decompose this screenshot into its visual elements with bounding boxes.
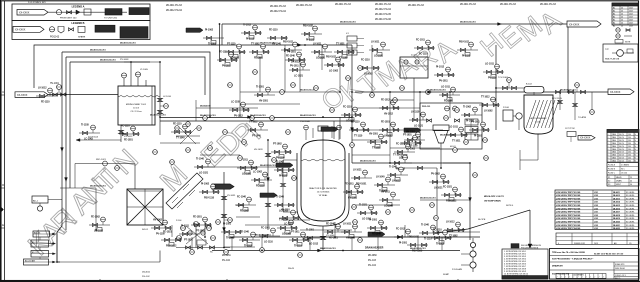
svg-text:LV-1021: LV-1021: [434, 188, 443, 190]
svg-text:2B-4012 PG-64: 2B-4012 PG-64: [166, 10, 183, 12]
valve group VG87: [479, 97, 500, 113]
svg-text:2B40: 2B40: [612, 146, 616, 148]
svg-text:PSV-1012: PSV-1012: [166, 246, 177, 248]
svg-text:LV-1011: LV-1011: [371, 42, 380, 44]
svg-text:LG-1011: LG-1011: [449, 127, 459, 129]
svg-text:1: 1: [608, 149, 609, 151]
svg-text:PKG-101: PKG-101: [422, 106, 431, 108]
border zone ticks: [0, 90, 458, 281]
svg-text:TI-1051: TI-1051: [208, 44, 217, 46]
svg-text:FC-1110: FC-1110: [121, 126, 130, 128]
legend box 1: [12, 4, 150, 21]
valve group VG78: [407, 237, 428, 253]
svg-text:OW SUMP DRAIN: OW SUMP DRAIN: [484, 200, 501, 203]
svg-text:2B-4011-50-CS1: 2B-4011-50-CS1: [100, 59, 116, 62]
svg-text:HV-1001: HV-1001: [50, 83, 60, 85]
svg-text:2B-4011 PG-63: 2B-4011 PG-63: [270, 6, 287, 8]
svg-text:TI-1040: TI-1040: [241, 231, 250, 234]
svg-text:2B-4011: 2B-4011: [613, 191, 620, 194]
svg-text:FC-1051: FC-1051: [261, 228, 271, 230]
svg-text:2B-4011 PG-63: 2B-4011 PG-63: [166, 5, 183, 7]
pipe risers mid right: [240, 45, 450, 163]
pipe main loop outer: [34, 45, 352, 163]
svg-text:FE-1062: FE-1062: [240, 211, 250, 213]
svg-text:PV-1051: PV-1051: [287, 52, 297, 54]
valve group VG6: [369, 42, 390, 58]
svg-text:2B-4011 PG-63: 2B-4011 PG-63: [375, 4, 392, 6]
valve group VG24: [239, 231, 260, 248]
valve group VG20: [304, 230, 325, 246]
svg-text:LOW LEVEL TRIP P103 SIS: LOW LEVEL TRIP P103 SIS: [556, 212, 581, 214]
svg-text:XX-XXXX: XX-XXXX: [17, 94, 28, 97]
svg-text:MIN SLOPE 1:100 TO: MIN SLOPE 1:100 TO: [484, 196, 504, 198]
svg-text:1: 1: [608, 155, 609, 157]
revision strip: [556, 274, 606, 279]
svg-text:E-102: E-102: [526, 84, 533, 86]
svg-text:PV-1062: PV-1062: [431, 174, 441, 176]
svg-text:50: 50: [630, 184, 632, 186]
svg-text:FE-1110: FE-1110: [41, 102, 50, 104]
svg-text:2B-4011 PG-63: 2B-4011 PG-63: [460, 4, 477, 6]
svg-text:SUMP: SUMP: [443, 274, 450, 276]
svg-text:CS / 2.5 bar: CS / 2.5 bar: [130, 110, 141, 113]
svg-text:FC-1110: FC-1110: [419, 54, 428, 56]
svg-text:XX-XXXX: XX-XXXX: [569, 23, 580, 26]
svg-text:TT-1051: TT-1051: [372, 148, 381, 150]
svg-text:150: 150: [628, 134, 631, 136]
svg-text:PT-1012: PT-1012: [196, 231, 205, 233]
svg-text:LG-1021: LG-1021: [199, 173, 209, 175]
svg-text:HV-1011: HV-1011: [381, 192, 391, 194]
svg-text:PT-1105: PT-1105: [409, 146, 418, 148]
dark flag markers: [186, 28, 421, 236]
valve group VG17: [351, 170, 372, 186]
svg-text:I-102: I-102: [594, 195, 598, 197]
legend box 2: [12, 21, 150, 40]
svg-text:PT-1011: PT-1011: [291, 232, 300, 234]
valve group VG85: [235, 196, 256, 213]
svg-text:PROCESS DIVISION: PROCESS DIVISION: [521, 248, 539, 250]
svg-text:FC-1051: FC-1051: [444, 101, 454, 103]
table line list right: [607, 130, 639, 187]
svg-text:2B-4012 PG-64: 2B-4012 PG-64: [270, 11, 287, 13]
svg-text:A1: A1: [613, 25, 615, 28]
svg-text:VENT SCRUBBER: VENT SCRUBBER: [530, 118, 548, 120]
svg-text:2B-4013: 2B-4013: [613, 197, 620, 200]
svg-text:2B-4015: 2B-4015: [613, 204, 620, 207]
flow arrows: [61, 23, 502, 253]
svg-text:2B-4011-50-CS1: 2B-4011-50-CS1: [420, 197, 436, 200]
valve group VG21: [324, 223, 345, 240]
logo mark above notes: [511, 244, 542, 250]
valve group VG12: [79, 125, 100, 141]
screw conveyor: [166, 173, 203, 209]
svg-text:D-101: D-101: [411, 55, 418, 57]
svg-text:2B-4060: 2B-4060: [368, 255, 377, 257]
svg-text:D: D: [2, 183, 4, 187]
svg-text:TT-1062: TT-1062: [251, 44, 260, 46]
svg-text:SD LEVEL: SD LEVEL: [626, 195, 635, 197]
valve station feed: [50, 83, 66, 96]
svg-text:FE-1051: FE-1051: [193, 217, 203, 219]
svg-text:P-104: P-104: [176, 220, 182, 222]
svg-text:2B40: 2B40: [612, 140, 616, 142]
pipe horizontal runs mid: [160, 92, 470, 225]
svg-text:TO UNIT 200: TO UNIT 200: [104, 18, 118, 20]
continuation reference labels bottom: [142, 255, 377, 278]
valve group VG70: [274, 162, 295, 178]
svg-text:XX-XXXX: XX-XXXX: [610, 91, 621, 94]
scrubber vessel E-101 hatched: [524, 90, 559, 150]
svg-text:150: 150: [628, 143, 631, 145]
svg-text:LV-1021: LV-1021: [353, 170, 362, 172]
svg-text:1: 1: [608, 143, 609, 145]
svg-text:LOW LEVEL TRIP P101 SIS: LOW LEVEL TRIP P101 SIS: [556, 218, 581, 220]
svg-text:I-101: I-101: [594, 222, 598, 224]
svg-text:SCALE NTS: SCALE NTS: [615, 263, 625, 266]
svg-text:0: 0: [558, 243, 559, 245]
valve group VG57: [249, 44, 270, 60]
svg-text:LG-1051: LG-1051: [242, 174, 252, 176]
svg-text:TCV-1062: TCV-1062: [498, 77, 509, 79]
svg-text:2B-4011-50-CS1: 2B-4011-50-CS1: [410, 247, 426, 250]
valve group VG62: [359, 60, 380, 76]
svg-text:2B40: 2B40: [612, 149, 616, 151]
svg-text:LG-1011: LG-1011: [485, 64, 495, 66]
svg-text:SEAL PLAN 53B: SEAL PLAN 53B: [605, 58, 620, 61]
valve group VG75: [277, 220, 298, 236]
svg-text:2B40: 2B40: [612, 137, 616, 139]
svg-text:2B-4014: 2B-4014: [613, 201, 620, 204]
svg-text:PV-1105: PV-1105: [156, 234, 165, 236]
reactor feed downcomers: [196, 100, 340, 139]
svg-text:2B-4012: 2B-4012: [613, 194, 620, 197]
svg-text:2B-4011-50-CS1: 2B-4011-50-CS1: [460, 21, 476, 24]
svg-text:LOW LEVEL TRIP P102 SIS: LOW LEVEL TRIP P102 SIS: [556, 195, 581, 197]
svg-text:FE-1040: FE-1040: [326, 223, 336, 226]
valve group VG25: [259, 228, 280, 244]
additive box A3: [31, 240, 56, 247]
table equipment list lower: [556, 233, 639, 245]
svg-text:XX-XXXX: XX-XXXX: [15, 29, 26, 32]
svg-text:SD LEVEL: SD LEVEL: [626, 215, 635, 217]
valve group VG43: [89, 217, 110, 233]
watermark text HEMA: [475, 5, 567, 63]
svg-text:TT-1012: TT-1012: [249, 122, 258, 124]
svg-text:2B-4020: 2B-4020: [613, 221, 620, 224]
valve group VG13: [194, 158, 215, 175]
svg-text:TT-1110: TT-1110: [279, 220, 288, 222]
svg-text:LV-1062: LV-1062: [484, 111, 493, 113]
svg-text:2B-4011-50-CS1: 2B-4011-50-CS1: [340, 21, 356, 24]
svg-text:TI-1110: TI-1110: [294, 246, 302, 248]
svg-text:PSV-1011: PSV-1011: [459, 42, 470, 44]
valve group VG81: [279, 210, 300, 226]
svg-text:LEGEND B: LEGEND B: [72, 22, 85, 25]
svg-text:15 m3 SS316: 15 m3 SS316: [317, 192, 330, 194]
svg-text:25: 25: [621, 14, 623, 16]
svg-text:CS 150: CS 150: [621, 173, 627, 175]
valve group VG55: [301, 26, 322, 42]
svg-text:FC-1110: FC-1110: [396, 144, 405, 146]
pipe bottom verticals: [172, 218, 442, 250]
svg-text:HV-1040: HV-1040: [346, 237, 356, 240]
pipe package outlet: [395, 166, 480, 232]
svg-text:LC-1021: LC-1021: [316, 58, 326, 60]
pipe drum outlet down: [390, 92, 414, 120]
svg-text:PG-103: PG-103: [368, 260, 377, 262]
svg-text:FE-1110: FE-1110: [269, 30, 278, 32]
svg-text:I-103: I-103: [594, 228, 598, 230]
svg-text:PV-1110: PV-1110: [488, 78, 497, 80]
vent header valves: [552, 83, 586, 100]
svg-text:FE-1040: FE-1040: [372, 233, 382, 236]
svg-text:LV-1012: LV-1012: [384, 136, 393, 138]
svg-text:FE-1051: FE-1051: [254, 58, 264, 60]
svg-text:25: 25: [621, 20, 623, 22]
svg-text:FC-1040: FC-1040: [237, 196, 247, 199]
svg-text:HV-1051: HV-1051: [259, 101, 269, 103]
svg-text:No 087 12 07 Bb 05 100 1 07 5: No 087 12 07 Bb 05 100 1 07 5 00: [594, 254, 623, 256]
notes list box: [502, 249, 548, 279]
svg-text:TI-1062: TI-1062: [276, 162, 285, 164]
svg-text:SD LEVEL: SD LEVEL: [626, 212, 635, 214]
svg-text:TI-1012: TI-1012: [244, 246, 253, 248]
table valve schedule top right: [612, 3, 638, 28]
svg-text:TI-1040: TI-1040: [196, 158, 205, 161]
valve group VG80: [151, 220, 172, 236]
svg-text:I-101: I-101: [594, 212, 598, 214]
svg-text:LG-1051: LG-1051: [362, 219, 372, 221]
valve column right of tank: [158, 62, 172, 135]
svg-text:2B40: 2B40: [612, 152, 616, 154]
svg-text:PI-1062: PI-1062: [201, 184, 210, 186]
svg-text:2B-4011-50-CS1: 2B-4011-50-CS1: [320, 247, 336, 250]
reactor bottom outlet: [320, 226, 335, 250]
svg-text:2B-4011-50-CS1: 2B-4011-50-CS1: [430, 89, 446, 92]
svg-text:LOW LEVEL TRIP P101 SIS: LOW LEVEL TRIP P101 SIS: [556, 205, 581, 207]
svg-text:FE-1110: FE-1110: [219, 52, 228, 54]
valve group VG23: [179, 226, 200, 242]
svg-text:TT-1051: TT-1051: [336, 44, 345, 46]
svg-text:2B40: 2B40: [612, 158, 616, 160]
svg-text:HV-1062: HV-1062: [153, 220, 163, 222]
pipe top header to flare: [222, 24, 568, 45]
svg-text:FE-1012: FE-1012: [381, 100, 391, 102]
valve group VG58: [414, 40, 435, 56]
manifold knot mid left: [175, 122, 202, 144]
svg-text:PI-1011: PI-1011: [181, 226, 190, 228]
svg-text:TT-1110: TT-1110: [354, 136, 363, 138]
valve group VG16: [343, 184, 364, 200]
svg-text:I-103: I-103: [594, 208, 598, 210]
stream flag vapor outlet: [608, 89, 634, 95]
svg-text:NOTE: NOTE: [625, 42, 631, 44]
valve group VG9: [483, 64, 504, 80]
svg-text:FLUID B: FLUID B: [608, 169, 616, 171]
svg-text:AD-203: AD-203: [32, 251, 38, 254]
svg-text:2B-4011-50-CS1: 2B-4011-50-CS1: [90, 185, 106, 188]
additive box A4: [31, 251, 56, 258]
svg-text:PI-1051: PI-1051: [399, 243, 408, 245]
scrubber inlet piping: [496, 77, 524, 90]
svg-text:AD-202: AD-202: [32, 241, 38, 244]
svg-text:PV-1011: PV-1011: [222, 66, 231, 68]
svg-text:2B-4018: 2B-4018: [613, 214, 620, 217]
svg-text:PI-1051: PI-1051: [474, 136, 483, 138]
svg-text:AD-201: AD-201: [34, 232, 40, 235]
svg-text:LOW LEVEL TRIP P102 SIS: LOW LEVEL TRIP P102 SIS: [556, 208, 581, 210]
svg-text:XV-1012: XV-1012: [124, 136, 133, 138]
svg-text:HV-1051: HV-1051: [406, 132, 416, 134]
valve group VG83: [379, 192, 400, 208]
svg-text:DRAIN HEADER: DRAIN HEADER: [365, 247, 384, 250]
svg-text:TT-1040: TT-1040: [176, 137, 185, 140]
svg-text:2B-43: 2B-43: [288, 268, 295, 270]
svg-text:2B-4011 PG-63: 2B-4011 PG-63: [540, 4, 557, 6]
svg-text:40: 40: [630, 181, 632, 183]
svg-text:FE-1021: FE-1021: [329, 238, 339, 240]
svg-text:PSV-1011: PSV-1011: [326, 57, 337, 59]
svg-text:150: 150: [628, 155, 631, 157]
svg-text:PSV-1012: PSV-1012: [446, 201, 457, 203]
svg-text:PT-1110: PT-1110: [227, 44, 236, 46]
svg-text:25: 25: [621, 26, 623, 28]
svg-text:PSV-1051: PSV-1051: [356, 184, 367, 186]
svg-text:TI-1021: TI-1021: [359, 205, 368, 207]
svg-text:1: 1: [608, 134, 609, 136]
svg-text:LG-1062: LG-1062: [282, 234, 292, 236]
valve group VG22: [161, 232, 182, 248]
vent line instruments: [558, 92, 595, 120]
svg-text:2B-4011-50-CS1: 2B-4011-50-CS1: [90, 49, 106, 52]
pipe spec labels: [90, 21, 576, 250]
svg-text:X1: X1: [608, 177, 610, 179]
svg-text:PG62-63: PG62-63: [50, 37, 60, 39]
pipe funnel outlet: [443, 162, 470, 164]
svg-text:LV-1062: LV-1062: [364, 74, 373, 76]
valve group VG86: [469, 122, 490, 138]
svg-text:A1: A1: [613, 7, 615, 10]
svg-text:2B-4016: 2B-4016: [613, 207, 620, 210]
valve group VG64: [439, 87, 460, 103]
svg-text:VALVE: VALVE: [616, 176, 622, 179]
svg-text:LOW LEVEL TRIP P103 SIS: LOW LEVEL TRIP P103 SIS: [556, 198, 581, 200]
svg-text:LV-1040: LV-1040: [376, 176, 385, 179]
svg-text:A1: A1: [613, 10, 615, 13]
svg-text:HV-1012: HV-1012: [384, 114, 394, 116]
svg-text:2B-4012 PG-64: 2B-4012 PG-64: [375, 9, 392, 11]
pipe tank transfer pair: [160, 118, 352, 122]
valve group VG71: [387, 166, 408, 183]
svg-text:I-102: I-102: [594, 215, 598, 217]
svg-text:1: 1: [608, 137, 609, 139]
watermark text KARIANTIN: [22, 144, 144, 262]
svg-text:2B-4022-80: 2B-4022-80: [200, 105, 211, 108]
svg-text:2B40: 2B40: [612, 134, 616, 136]
funnel hopper F-101: [427, 119, 460, 168]
svg-text:TI-1012: TI-1012: [243, 25, 252, 27]
svg-text:PT-1051: PT-1051: [403, 135, 412, 137]
svg-text:150: 150: [628, 152, 631, 154]
valve group VG82: [357, 205, 378, 221]
instrument bubbles scattered: [153, 66, 489, 258]
svg-text:LEGEND A: LEGEND A: [72, 5, 85, 8]
reactor jacket connections: [281, 160, 297, 212]
svg-text:C: C: [2, 90, 4, 94]
svg-text:LV-1011: LV-1011: [343, 224, 352, 226]
pipe mid horizontal runs: [60, 164, 352, 231]
tank outlet valve group: [76, 125, 133, 142]
svg-text:SD LEVEL: SD LEVEL: [626, 205, 635, 207]
watermark text MEDPI: [154, 117, 267, 198]
svg-text:2B-4017: 2B-4017: [613, 211, 620, 214]
valve group VG34: [229, 102, 250, 118]
valve group VG88: [447, 127, 468, 143]
svg-text:HV-1040: HV-1040: [272, 43, 282, 46]
svg-text:2B-4051: 2B-4051: [222, 255, 231, 257]
valve group VG19: [391, 154, 412, 171]
svg-text:PG-102: PG-102: [142, 276, 150, 278]
valve group VG5: [281, 42, 302, 58]
svg-text:A1: A1: [613, 19, 615, 22]
scrubber bottoms pump: [503, 107, 538, 130]
tank T-101: [118, 86, 160, 125]
watermark text OKTMARA: [316, 34, 462, 117]
svg-text:I-103: I-103: [594, 218, 598, 220]
svg-text:TT-1012: TT-1012: [481, 97, 490, 99]
valve group VG7: [434, 67, 455, 83]
svg-text:LV-1012: LV-1012: [291, 62, 300, 64]
svg-text:TYP: TYP: [605, 49, 610, 51]
svg-text:100 SERIES: 100 SERIES: [573, 274, 584, 276]
valve manifold knot: [176, 220, 230, 254]
svg-text:FC-1021: FC-1021: [443, 187, 453, 189]
svg-text:B-101: B-101: [142, 229, 149, 231]
detail box pump seal: [603, 44, 638, 62]
svg-text:25: 25: [630, 177, 632, 179]
svg-text:2B-4011-50-CS1: 2B-4011-50-CS1: [560, 89, 576, 92]
svg-text:PT-1040: PT-1040: [252, 135, 261, 138]
svg-text:FROM UNIT 100: FROM UNIT 100: [60, 18, 77, 20]
valve group VG4: [241, 25, 262, 41]
svg-text:DWG 2B-001: DWG 2B-001: [615, 268, 625, 270]
continuation reference labels top: [166, 4, 557, 21]
svg-text:150: 150: [628, 158, 631, 160]
stream flag feed left: [15, 92, 118, 98]
svg-text:FC-1110: FC-1110: [361, 60, 370, 62]
svg-text:LC-1021: LC-1021: [294, 76, 304, 78]
bin hopper B-101: [127, 189, 163, 231]
valve group VG28: [419, 224, 440, 241]
svg-text:PI-1021: PI-1021: [462, 56, 471, 58]
svg-text:ISSUED FOR: ISSUED FOR: [574, 243, 586, 245]
svg-text:LC-1021: LC-1021: [374, 56, 384, 58]
svg-text:1: 1: [608, 152, 609, 154]
valve group VG1: [36, 88, 57, 104]
svg-text:FE-1011: FE-1011: [345, 184, 354, 186]
svg-text:150: 150: [628, 149, 631, 151]
svg-text:150: 150: [628, 137, 631, 139]
additive box A1: [32, 196, 62, 211]
svg-text:LC-1062: LC-1062: [253, 172, 263, 174]
small box stack top band: [346, 33, 364, 55]
svg-text:V-1: V-1: [346, 33, 349, 35]
reactor top nozzles: [300, 121, 341, 140]
svg-text:SD LEVEL: SD LEVEL: [626, 192, 635, 194]
svg-text:XX-XXXX: XX-XXXX: [19, 11, 30, 14]
stream flag top right: [567, 21, 601, 27]
